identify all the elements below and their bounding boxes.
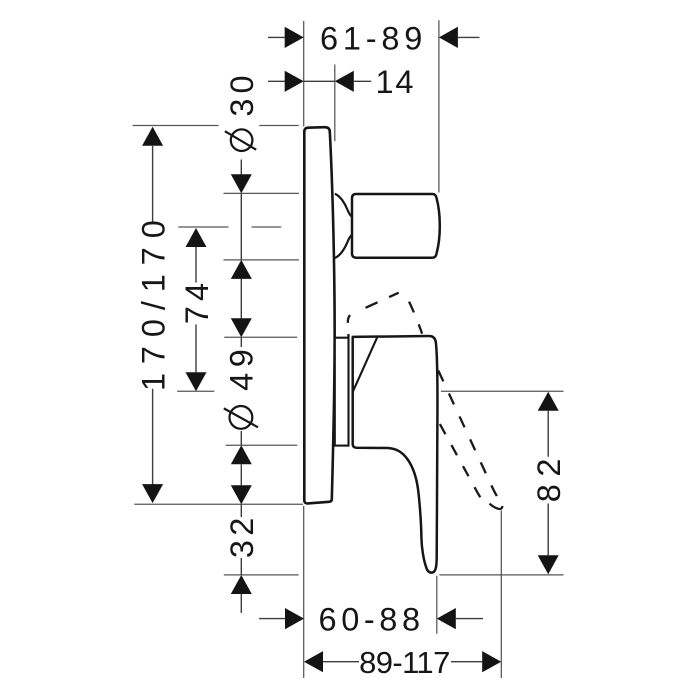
reference line knob bottom (dim diameter 30) <box>224 259 299 261</box>
arrow diameter49 bottom <box>231 445 252 464</box>
label 82 <box>531 451 567 502</box>
label 89-117 <box>359 645 450 680</box>
extension line bottom right (raised lever tip, dim 89-117) <box>500 511 502 679</box>
extension line right of dim 61-89 (knob face) <box>438 20 440 192</box>
arrow 14 left <box>285 71 304 92</box>
svg-text:61-89: 61-89 <box>320 20 427 56</box>
arrow 14 right <box>335 71 354 92</box>
arrow 61-89 right <box>439 27 458 48</box>
knob neck (spool between plate and knob) <box>335 194 352 258</box>
arrow 74 bottom <box>186 372 207 391</box>
dimension line diameter 30 <box>240 160 242 319</box>
reference line knob top (dim diameter 30) <box>224 192 299 194</box>
arrow 89-117 left <box>304 651 323 672</box>
reference line lever axis left (dim 74 bottom) <box>177 390 214 392</box>
arrow 61-89 left <box>285 27 304 48</box>
svg-text:170/170: 170/170 <box>135 211 171 391</box>
dimension line 60-88 <box>259 618 483 620</box>
arrow 32 top <box>231 485 252 504</box>
reference line top of dim diameter 49 <box>224 336 297 338</box>
dimension line 14 <box>268 80 371 82</box>
arrow diameter30 bottom <box>231 260 252 279</box>
reference line lever axis right (dim 82 top) <box>441 390 564 392</box>
arrow 89-117 right <box>482 651 501 672</box>
label 60-88 <box>319 602 425 638</box>
dimension line 32 <box>240 504 242 613</box>
reference line lever tip level right (dim 82 bottom) <box>439 574 563 576</box>
dimension line 170/170 <box>152 146 154 485</box>
extension line bottom middle (lever tip, dim 60-88) <box>436 576 438 634</box>
knob (diameter 30 handle, side view) <box>352 194 440 258</box>
center line knob axis <box>178 226 281 228</box>
label 74 <box>179 278 215 324</box>
arrow diameter30 top <box>231 174 252 193</box>
reference line bottom of dim diameter 49 <box>226 444 298 446</box>
dimension line 82 <box>547 411 549 556</box>
diameter symbol of dim 30 <box>225 129 256 151</box>
dimension line diameter 49 <box>240 337 242 485</box>
lever crease line (slanted underside edge) <box>353 336 378 391</box>
arrow 170/170 top <box>142 127 163 146</box>
reference line lever tip level left (dim 32 bottom) <box>224 574 299 576</box>
svg-text:89-117: 89-117 <box>359 645 450 680</box>
arrow 60-88 left <box>285 608 304 629</box>
label 30 (of diameter 30) <box>224 70 260 116</box>
arrow 60-88 right <box>437 608 456 629</box>
escutcheon sleeve (stop ring) <box>335 334 349 445</box>
reference line top of dim 170/170 <box>133 125 299 127</box>
arrow diameter49 top <box>231 318 252 337</box>
label 61-89 <box>320 20 427 56</box>
dimension line 61-89 <box>268 36 480 38</box>
svg-text:14: 14 <box>376 64 416 100</box>
escutcheon wall plate (side view) <box>304 127 334 503</box>
dimension line 74 <box>195 247 197 372</box>
diameter symbol of dim 49 <box>224 406 258 429</box>
label 49 (of diameter 49) <box>224 344 260 391</box>
dashed lever outline upper edge descending (raised position) <box>438 371 500 502</box>
svg-text:74: 74 <box>179 278 215 324</box>
extension line right of dim 14 <box>334 65 336 142</box>
svg-text:60-88: 60-88 <box>319 602 425 638</box>
arrow 32 bottom <box>231 575 252 594</box>
dashed lever outline lower-left and apex (raised position) <box>348 292 423 337</box>
extension line left of dim 61-89 (wall plate front) <box>303 21 305 127</box>
arrow 74 top <box>186 228 207 247</box>
svg-text:32: 32 <box>224 514 260 559</box>
dashed lever outline lower edge and tip (raised position) <box>438 420 503 509</box>
extension line bottom left (plate front, dims 60-88 / 89-117) <box>303 506 305 678</box>
svg-text:82: 82 <box>531 451 567 502</box>
lever handle body and blade (solid, closed position) <box>353 336 438 573</box>
svg-text:49: 49 <box>224 344 260 391</box>
arrow 82 top <box>538 392 559 411</box>
reference line plate bottom (dim 170/170 and 32) <box>134 503 303 505</box>
dimension line 89-117 <box>323 661 482 663</box>
label 14 <box>376 64 416 100</box>
label 32 <box>224 514 260 559</box>
label 170/170 <box>135 211 171 391</box>
arrow 170/170 bottom <box>142 484 163 503</box>
arrow 82 bottom <box>538 555 559 574</box>
svg-text:30: 30 <box>224 70 260 116</box>
